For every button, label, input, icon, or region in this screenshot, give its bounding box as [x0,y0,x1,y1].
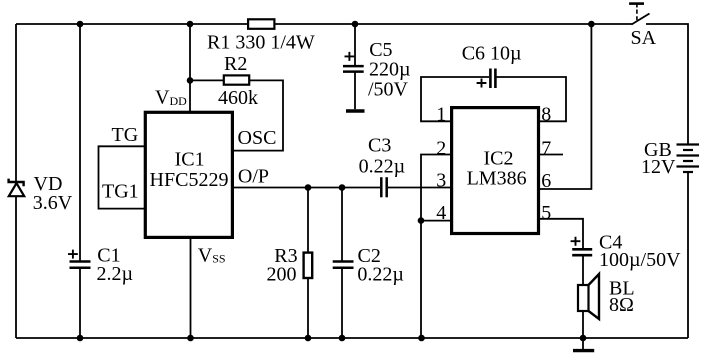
label BL value [609,294,634,316]
svg-text:TG: TG [112,124,139,146]
label pin 4 [436,202,446,224]
capacitor C3 [381,177,386,197]
wire speaker to bottom rail [582,311,584,338]
label C4 value [599,249,681,271]
label C4 [599,232,622,254]
svg-text:O/P: O/P [238,165,269,187]
label pin 1 [436,104,446,126]
node junction speaker/bottom rail [580,335,587,342]
svg-text:2: 2 [436,138,446,160]
ground C5 [346,109,365,112]
svg-text:100µ/50V: 100µ/50V [599,249,681,271]
wire C3 to pin3 [388,187,450,189]
label pin 8 [541,104,551,126]
svg-text:1: 1 [436,104,446,126]
svg-text:3: 3 [436,170,446,192]
label C1 [97,244,120,266]
wire pin6 to supply riser [539,24,592,189]
capacitor C1 [70,262,91,268]
node junction bottom rail at R3 [305,335,312,342]
label C5 polarity + [345,52,355,61]
wire pin4 lead [421,220,450,222]
wire TG/TG1 loop [99,146,146,208]
svg-text:HFC5229: HFC5229 [150,169,229,191]
wire VSS riser [190,239,192,338]
svg-text:2.2µ: 2.2µ [97,263,134,285]
switch SA [629,4,649,25]
label VD [34,173,63,195]
svg-text:IC2: IC2 [484,148,514,170]
capacitor C4 [572,249,592,255]
ground bottom rail [573,338,594,351]
battery GB [677,145,700,173]
wire pin7 stub [539,154,564,156]
svg-text:LM386: LM386 [467,167,527,189]
label R3 value [267,263,297,285]
label C6 polarity + [477,79,487,88]
wire C2 upper lead [341,188,343,262]
label C6 value [462,43,522,65]
label C5 voltage [368,79,409,101]
op-amp IC2 box [452,108,539,234]
node junction pin4/riser [418,217,425,224]
svg-text:/50V: /50V [368,79,409,101]
wire C5 lower lead [354,72,356,110]
wire C2 lower lead [341,268,343,338]
wire R3 lower lead [307,278,309,338]
label C2 [358,245,381,267]
wire left edge [15,24,17,338]
node junction bottom rail at VSS [187,335,194,342]
svg-text:8Ω: 8Ω [609,294,634,316]
label C2 value [357,263,404,285]
node junction O/P at R3 [305,184,312,191]
label C5 value [369,59,411,81]
node junction bottom rail at C2 [339,335,346,342]
capacitor C6 [490,69,495,89]
label GB [644,139,672,161]
capacitor C2 [333,262,354,268]
wire R3 upper lead [307,188,309,253]
wire O/P net [233,187,380,189]
svg-text:TG1: TG1 [102,180,139,202]
op-amp IC1 box [145,112,232,237]
wire pin2 to ground riser [421,155,450,339]
label R2 value [218,87,258,109]
node junction riser/bottom rail [418,335,425,342]
label GB voltage [641,156,676,178]
svg-text:220µ: 220µ [369,59,411,81]
resistor R3 [304,253,313,278]
resistor R1 [248,19,274,29]
svg-text:8: 8 [541,104,551,126]
wire bottom rail [16,337,688,339]
svg-text:0.22µ: 0.22µ [359,156,406,178]
wire R2 to OSC [234,80,283,150]
label pin 7 [541,138,551,160]
node junction top rail at pin6 riser [588,21,595,28]
wire C1 branch upper [79,24,81,262]
wire battery bottom to rail [687,172,689,339]
node junction bottom rail at C1 [77,335,84,342]
label C3 [368,134,391,156]
svg-text:5: 5 [541,202,551,224]
label pin 5 [541,202,551,224]
svg-text:SA: SA [631,27,657,49]
wire switch to battery top [646,24,688,144]
node junction top rail at VDD riser [187,21,194,28]
label pin 3 [436,170,446,192]
label pin VDD [155,87,187,109]
label R2 [224,53,247,75]
svg-text:460k: 460k [218,87,258,109]
label pin 2 [436,138,446,160]
label R3 [274,245,297,267]
svg-text:3.6V: 3.6V [33,192,73,214]
resistor R2 [224,75,249,84]
label pin OSC [238,127,277,149]
label C4 polarity + [571,237,581,246]
node junction top rail at C1 branch [77,21,84,28]
wire pin1 to C6 [421,77,489,121]
diode VD (zener) [9,179,25,197]
label IC2 part number [467,167,527,189]
svg-text:0.22µ: 0.22µ [357,263,404,285]
label BL [609,278,635,300]
svg-text:7: 7 [541,138,551,160]
label IC1 part number [150,169,229,191]
node junction top rail at C5 [352,21,359,28]
node junction VDD/R2 [187,77,194,84]
wire C4 to speaker [582,255,584,286]
label C5 [369,39,392,61]
capacitor C5 [343,66,364,72]
label pin TG [112,124,139,146]
label IC1 [175,149,205,171]
label R1 value [207,32,315,54]
label pin VSS [198,245,226,267]
wire VDD riser [189,24,191,113]
wire C1 branch lower [79,268,81,338]
wire pin5 to C4 [539,219,584,250]
svg-text:R2: R2 [224,53,247,75]
label SA [631,27,657,49]
wire C5 upper lead [354,24,356,66]
label C1 value [97,263,134,285]
label pin TG1 [102,180,139,202]
label pin O/P [238,165,269,187]
wire top rail [16,23,632,25]
label pin 6 [541,170,551,192]
wire C6 to pin8 [497,77,567,121]
wire R2 left lead [190,79,223,81]
node junction O/P at C2 [339,184,346,191]
svg-text:OSC: OSC [238,127,277,149]
svg-text:C3: C3 [368,134,391,156]
label C3 value [359,156,406,178]
svg-text:12V: 12V [641,156,676,178]
svg-text:C6 10µ: C6 10µ [462,43,522,65]
svg-text:200: 200 [267,263,297,285]
label VD value [33,192,73,214]
speaker BL [578,274,599,319]
svg-text:IC1: IC1 [175,149,205,171]
svg-text:R1 330 1/4W: R1 330 1/4W [207,32,315,54]
label C1 polarity + [68,250,78,259]
label IC2 [484,148,514,170]
